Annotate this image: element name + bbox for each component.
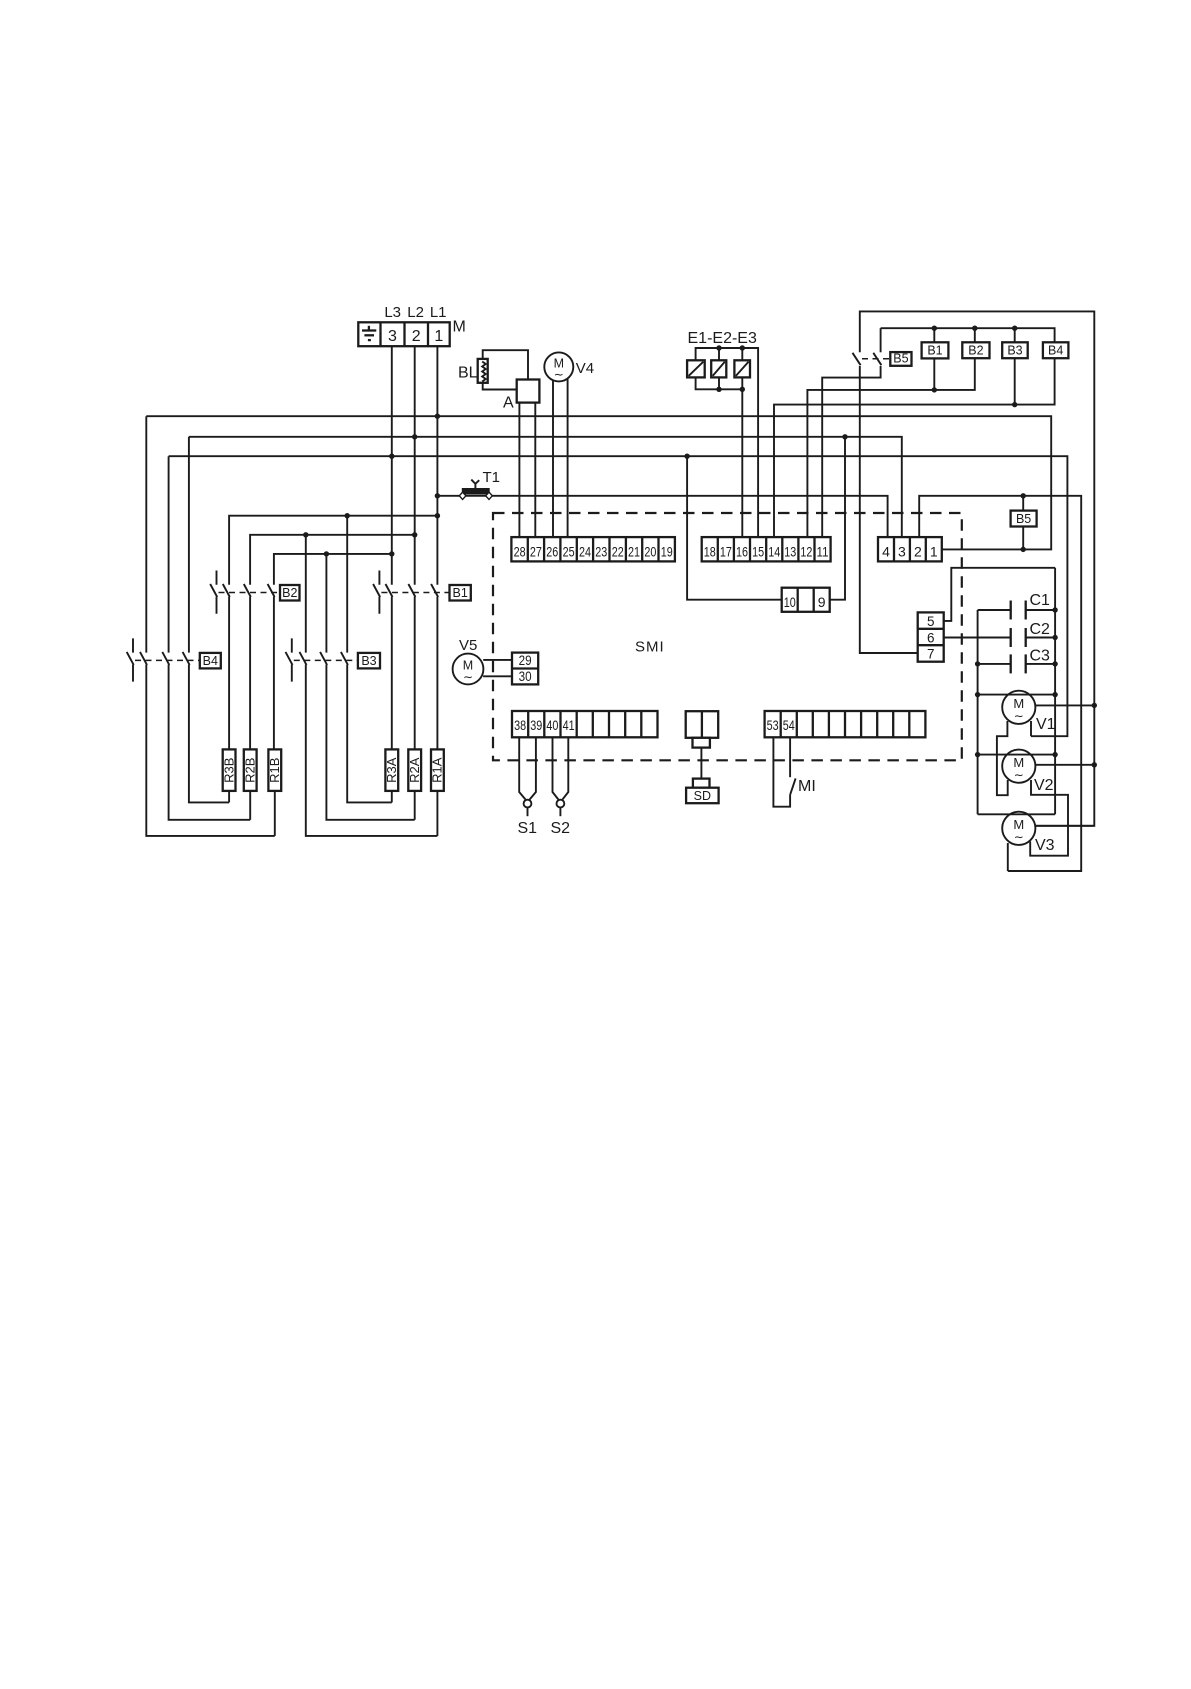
svg-text:21: 21 [628,543,640,559]
svg-text:L2: L2 [407,304,424,321]
wire line L1-ring (y416): R1B/B4 net across to terminal 1 / B5 [146,416,1051,549]
sensor S1 [524,800,532,817]
svg-text:17: 17 [720,543,732,559]
svg-text:10: 10 [784,594,796,610]
svg-text:V5: V5 [459,637,477,654]
junction C3 right [1052,661,1057,666]
svg-text:V4: V4 [576,360,594,377]
junction line554 x M3 [389,551,394,556]
terminal strip 18..11 [702,537,831,561]
wire V5 to box 30 [483,675,512,677]
svg-text:23: 23 [595,543,607,559]
svg-text:15: 15 [752,543,764,559]
wire M terminal 2 vertical (L2 phase) [414,346,416,585]
svg-text:BL: BL [458,364,478,381]
wire V2 right to outer vertical [1035,764,1094,766]
junction M2 x line437 [412,434,417,439]
svg-text:A: A [503,394,514,411]
wire outer top loop (net to V3 right) [860,311,1095,825]
wire V1 lower-right stub [1030,721,1032,736]
wire terminal 40 down [553,737,559,799]
svg-text:26: 26 [546,543,558,559]
wire V2 top line [978,754,1056,756]
svg-text:C1: C1 [1030,592,1051,609]
wire B3 pole1 riser [305,535,307,653]
wire line (y535): B2 pole2 to M2, tap to B3 pole1 [250,535,415,585]
svg-text:∼: ∼ [554,368,564,382]
switch B3 (3-pole + spare) [286,638,358,681]
resistor R2B [242,749,257,791]
wire B1 pole3 to R1A [436,597,438,750]
wire box6 to C2 left plate [944,637,1011,639]
wire V4 to terminal 26 [552,380,554,537]
relay A [517,380,540,403]
svg-text:22: 22 [612,543,624,559]
fuse T1 line: M1 to terminal 4 [437,496,887,537]
junction C2 right [1052,635,1057,640]
wire B1 coil bottom stub [933,358,935,390]
wire C3 right to bus [1026,663,1055,665]
wire R3A bottom stub [391,791,393,803]
svg-text:2: 2 [914,543,922,559]
wire M terminal 3 vertical (L3 phase) [391,346,393,585]
wire terminal 38 down [519,737,525,799]
wire B3 pole3 to R3A bottom loop [347,665,392,803]
coil B1 [922,342,949,358]
wire E3 top stub [741,348,743,360]
svg-text:R1A: R1A [430,757,445,783]
junction V2 top left [975,752,980,757]
svg-text:B3: B3 [1007,343,1022,357]
wire V1 top line [978,694,1056,696]
switch B2 (3-pole + spare) [210,571,280,614]
wire R3B bottom stub [228,791,230,803]
ground symbol (PE cell of M block) [362,326,376,340]
svg-text:40: 40 [546,717,558,733]
wire top bus to B1..B4 coils [881,328,1055,342]
svg-text:B1: B1 [927,343,942,357]
svg-text:R3A: R3A [384,757,399,783]
svg-text:3: 3 [898,543,906,559]
wire to SD [700,748,702,779]
wire B2 pole2 to R2B [249,597,251,750]
wire B2 pole1 to R3B [228,597,230,750]
wire B3 pole2 riser [325,554,327,653]
terminal strip 38..41 [512,711,658,737]
svg-text:9: 9 [818,594,826,610]
svg-text:19: 19 [661,543,673,559]
motor V4 [544,352,573,381]
switch B5 pole left [853,353,861,365]
svg-text:B1: B1 [453,586,468,600]
svg-text:R2B: R2B [242,758,257,783]
svg-text:16: 16 [736,543,748,559]
junction B5 bottom on terminal1 line [1021,547,1026,552]
svg-text:3: 3 [388,328,397,345]
svg-text:4: 4 [882,543,890,559]
svg-text:12: 12 [800,543,812,559]
terminal strip 4..1 [878,537,942,561]
wire left outer vertical (to B4 pole1) [145,416,147,652]
wire line (y437): R3B/B4 net to terminal 3 [189,437,902,537]
capacitor C2 [1011,628,1026,647]
svg-text:V2: V2 [1034,777,1054,794]
svg-text:53: 53 [767,717,779,733]
wire left inner vertical (to B4 pole3) [188,437,190,653]
wire B2 pole3 to R1B [273,597,275,750]
wire C1 left from vertical bus [978,609,1011,611]
wire box9 to line437 [830,437,845,600]
junction line516 tap to B3 pole3 [345,513,350,518]
svg-text:C3: C3 [1030,648,1051,665]
wire terminal 54 down [789,737,791,777]
svg-text:∼: ∼ [1014,709,1024,723]
switch B1 (3-pole + spare) [373,571,449,614]
terminal box 29/30 [512,653,538,685]
wire B4 pole1 to R1B bottom loop [146,665,274,836]
junction E3 bottom [740,387,745,392]
wire B3 pole1 to R1A bottom loop [306,665,438,836]
motor V2 [1002,750,1035,783]
coil B3 [1002,342,1027,358]
fuse T1 [459,480,492,500]
svg-text:B3: B3 [361,654,376,668]
svg-text:∼: ∼ [1014,768,1024,782]
svg-text:30: 30 [519,669,532,684]
junction line554 tap to B3 pole2 [324,551,329,556]
svg-text:MI: MI [798,778,816,795]
junction E3 top [740,345,745,350]
device SD [686,779,719,804]
svg-text:B2: B2 [968,343,983,357]
wire R1A bottom stub [436,791,438,836]
svg-text:41: 41 [563,717,575,733]
resistor R1B [267,749,282,791]
wire BL top to A box [483,350,528,379]
wire V3 top line [978,813,1056,815]
junction M1 x T1 line [435,493,440,498]
svg-text:L3: L3 [384,304,401,321]
wire B3 pole3 riser [346,516,348,653]
svg-text:B2: B2 [282,586,297,600]
terminal block M [358,322,449,346]
wire B4 pole2 to R2B bottom loop [169,665,251,820]
svg-text:11: 11 [817,543,829,559]
wire B5 switch left pole down to box 7 [860,366,918,653]
wire C3 left from vertical bus [978,663,1011,665]
connector block above SD [686,711,719,747]
wire line (y516): B2 pole1 to M1, tap to B3 pole3 [229,516,437,585]
svg-text:39: 39 [530,717,542,733]
component E2 [711,360,726,377]
svg-text:14: 14 [768,543,780,559]
wire box10 to line456 [687,456,782,600]
svg-text:38: 38 [514,717,526,733]
svg-text:B5: B5 [1016,512,1031,526]
junction box10 riser x line456 [684,454,689,459]
wire C2 right to bus [1026,637,1055,639]
svg-text:B5: B5 [893,352,908,366]
wire motor common tap vertical [977,610,979,814]
svg-text:20: 20 [644,543,656,559]
wire R2B bottom stub [249,791,251,820]
junction B2 top [972,326,977,331]
capacitor C3 [1011,654,1026,673]
box B4 [200,653,221,669]
wire line (y456): R2B/B4 net to V1 lower-right [169,456,1068,736]
wire BL bottom to A box left [483,383,517,390]
wire V2 lower-right step to V3 lower-right [1030,780,1068,856]
wire M terminal 1 vertical (L1 phase) [436,346,438,585]
wire left middle vertical (to B4 pole2) [168,456,170,652]
component E3 [734,360,750,377]
motor V5 [453,654,484,685]
junction B3 top [1012,326,1017,331]
wire B4 pole3 to R3B bottom loop [189,665,229,803]
wire E bottom bus [696,377,743,389]
motor V3 [1002,812,1035,845]
wire B5 switch right pole to terminal 11 [822,366,880,537]
box B5 (lower) [1011,511,1037,527]
switch B5 pole right [873,353,881,365]
svg-text:M: M [453,319,466,336]
svg-text:18: 18 [704,543,716,559]
junction V2 top right [1052,752,1057,757]
box B2 [280,585,300,601]
wire C1 right to bus [1026,609,1055,611]
svg-text:T1: T1 [483,469,501,486]
wire terminal 53 down [773,737,790,806]
wire B1 coil top stub [933,328,935,342]
svg-text:13: 13 [784,543,796,559]
svg-text:54: 54 [783,717,795,733]
switch B4 (3-pole + spare) [127,638,200,681]
junction C3 left [975,661,980,666]
resistor R3A [384,749,399,791]
svg-text:E1-E2-E3: E1-E2-E3 [688,330,757,347]
junction V2 right [1092,762,1097,767]
junction V1 top right [1052,692,1057,697]
wire B5 switch right pole top [880,328,882,352]
wire V1 lower-left step to V2 lower-left [997,721,1008,795]
junction B5 top on terminal2 line [1021,493,1026,498]
linkage to B5 box [862,358,890,360]
capacitor C1 [1011,601,1026,620]
svg-text:1: 1 [434,328,443,345]
svg-text:27: 27 [530,543,542,559]
junction B1 bottom [932,387,937,392]
wire terminal 2 to V3 lower-left (via right side) [919,496,1081,871]
terminal strip 28..19 [511,537,675,561]
wire A box to terminal 28 [518,403,520,537]
junction line535 x M2 [412,532,417,537]
svg-text:V1: V1 [1036,716,1056,733]
wire B1 pole2 to R2A [414,597,416,750]
junction B3 bottom [1012,402,1017,407]
svg-text:29: 29 [519,653,532,668]
wire B3 coil bottom stub [1014,358,1016,404]
junction M3 x line456 [389,454,394,459]
svg-text:7: 7 [927,647,935,662]
wire line (y554): B2 pole3 to M3, tap to B3 pole2 [274,554,392,585]
resistor R1A [430,749,445,791]
svg-text:6: 6 [927,630,935,645]
svg-text:2: 2 [412,328,421,345]
wire terminal 41 down [562,737,568,799]
wire R1B bottom stub [274,791,276,836]
component E1 [687,360,705,377]
svg-text:5: 5 [927,614,935,629]
wire B3 pole2 to R2A bottom loop [326,665,414,820]
svg-text:S2: S2 [551,820,571,837]
wire C-bus vertical [1054,568,1056,815]
wire V5 to box 29 [483,659,512,661]
junction box9 riser x line437 [842,434,847,439]
svg-text:V3: V3 [1035,837,1055,854]
wire terminal 39 down [530,737,536,799]
wire R2A bottom stub [414,791,416,820]
wire V3 lower-left stub [1007,843,1009,871]
resistor R2A [407,749,422,791]
sensor S2 [557,800,565,817]
junction B1 top [932,326,937,331]
terminal box 5/6/7 [918,612,944,661]
controller SMI enclosure (dashed) [493,513,962,760]
svg-text:∼: ∼ [1014,830,1024,844]
coil B4 [1043,342,1069,358]
svg-text:1: 1 [930,543,938,559]
junction E2 top [716,345,721,350]
junction E2 bottom [716,387,721,392]
junction C1 right [1052,607,1057,612]
wire V1 right to outer vertical [1035,704,1094,706]
svg-text:SMI: SMI [635,639,665,656]
box B5 (top) [890,352,911,366]
junction line516 x M1 [435,513,440,518]
component BL (sensor/bulb) [478,359,488,383]
svg-text:∼: ∼ [463,670,473,684]
junction line535 tap to B3 pole1 [303,532,308,537]
junction V1 top left [975,692,980,697]
wire V4 to terminal 25 [567,379,569,537]
box B3 [358,653,380,669]
switch MI blade [790,778,796,794]
svg-text:28: 28 [514,543,526,559]
wire A box to terminal 27 [534,403,536,537]
wire B3/B4 coil bottoms to terminal 14 [774,358,1055,537]
resistor R3B [221,749,236,791]
junction V1 right [1092,703,1097,708]
box B1 [450,585,471,601]
svg-text:24: 24 [579,543,591,559]
wire box5 to C-bus top [944,568,1055,621]
svg-text:R1B: R1B [267,758,282,783]
wire B3 coil top stub [1014,328,1016,342]
wire B5 lower top stub [1022,496,1024,511]
svg-text:S1: S1 [518,820,538,837]
wire B1 pole1 to R3A [391,597,393,750]
wire V3 right line [1035,825,1094,827]
wire B2 coil top stub [974,328,976,342]
coil B2 [962,342,989,358]
svg-text:SD: SD [694,789,711,803]
junction M1 x line416 [435,414,440,419]
wire E2 top stub [718,348,720,360]
terminal strip 53/54 [765,711,926,737]
terminal box 10/9 [782,588,830,612]
wire E2 bottom stub [718,377,720,389]
wire B1/B2 coil bottoms to terminal 12 [807,358,974,537]
svg-text:25: 25 [563,543,575,559]
svg-text:C2: C2 [1030,621,1051,638]
wire B5 lower bottom stub [1022,527,1024,550]
svg-text:L1: L1 [430,304,447,321]
wire E3 to terminal 16 [741,377,743,537]
wire E top bus [696,348,759,537]
svg-text:R2A: R2A [407,757,422,783]
svg-text:B4: B4 [203,654,218,668]
svg-text:R3B: R3B [221,758,236,783]
svg-text:B4: B4 [1048,343,1063,357]
motor V1 [1002,691,1035,724]
